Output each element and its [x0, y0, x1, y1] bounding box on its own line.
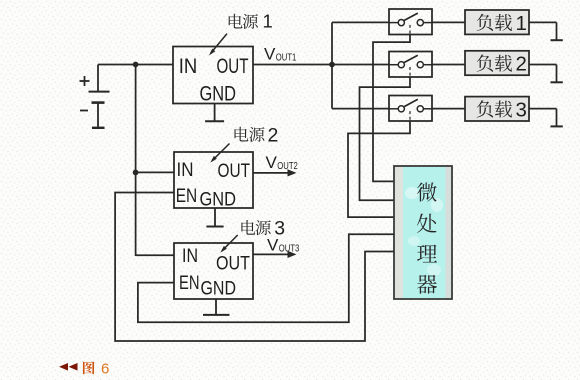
wire IN bus vertical [135, 65, 137, 257]
regulator U2 power-supply 2 box [174, 152, 253, 211]
wire supply2 VOUT2 output arrow [253, 169, 297, 176]
load box 负载1 [465, 10, 529, 35]
switch S3 [389, 96, 432, 122]
svg-text:2: 2 [516, 53, 527, 76]
switch S1 [389, 9, 432, 35]
leader line to supply2 [210, 144, 229, 163]
ground of supply2 [206, 208, 223, 227]
ground of load 1 [551, 39, 563, 41]
wire switch S2 control to microprocessor [360, 77, 411, 200]
label 电源1 [229, 11, 273, 32]
microprocessor U4 box [394, 166, 452, 299]
wire switch S1 to load 1 [432, 21, 465, 23]
label 电源2 [234, 124, 278, 146]
label VOUT2 [266, 153, 298, 172]
svg-text:GND: GND [200, 83, 237, 106]
wire supply3 VOUT3 output arrow [253, 251, 297, 258]
svg-text:GND: GND [200, 189, 237, 211]
label VOUT3 [267, 236, 299, 255]
wire VOUT1 to switch S2 [332, 64, 389, 66]
svg-text:3: 3 [516, 98, 527, 121]
svg-text:IN: IN [179, 54, 198, 78]
wire load 3 to ground [529, 109, 557, 126]
svg-text:EN: EN [176, 185, 198, 207]
svg-text:V: V [267, 236, 279, 255]
label VOUT1 [264, 45, 296, 64]
wire IN bus to supply3 IN [136, 254, 174, 256]
wire IN bus to supply2 IN [136, 171, 174, 173]
wire VOUT1 to switch S1 [332, 21, 389, 23]
leader line to supply3 [220, 235, 237, 253]
switch S2 [389, 52, 432, 78]
battery B1 [89, 92, 110, 128]
wire switch S3 to load 3 [432, 108, 465, 110]
svg-text:OUT: OUT [216, 253, 250, 275]
svg-text:IN: IN [182, 245, 198, 267]
svg-text:IN: IN [177, 159, 194, 181]
junction node VOUT1 [329, 62, 335, 68]
caption double left arrows [59, 363, 78, 371]
ground of load 3 [551, 125, 563, 127]
wire VOUT1 to switch S3 [332, 108, 389, 110]
ground of supply1 [205, 104, 224, 122]
wire battery+ to top rail [98, 65, 173, 92]
ground of load 2 [551, 81, 563, 83]
wire switch S2 to load 2 [432, 64, 465, 66]
svg-text:EN: EN [179, 272, 200, 294]
regulator U1 power-supply 1 box [173, 47, 253, 106]
wire supply2 EN to microprocessor [115, 193, 394, 342]
ground of supply3 [203, 299, 230, 315]
svg-text:1: 1 [263, 11, 273, 32]
svg-text:GND: GND [201, 278, 237, 300]
svg-text:OUT: OUT [218, 160, 251, 182]
load box 负载2 [465, 51, 529, 76]
svg-text:V: V [266, 153, 278, 172]
wire switch S3 control to microprocessor [348, 121, 410, 217]
wire switch S1 control to microprocessor [373, 35, 410, 182]
junction node top rail / IN bus [133, 62, 139, 68]
battery B1 plus sign [80, 76, 90, 86]
regulator U3 power-supply 3 box [174, 243, 253, 300]
svg-text:2: 2 [268, 124, 279, 146]
leader line to supply1 [209, 34, 227, 56]
wire load 2 to ground [529, 65, 557, 82]
junction node IN bus / supply2 IN [133, 170, 139, 176]
svg-text:1: 1 [516, 12, 527, 35]
load box 负载3 [465, 97, 529, 122]
svg-text:OUT: OUT [217, 55, 249, 78]
wire VOUT1 bus vertical [331, 22, 333, 108]
battery minus sign [80, 110, 88, 112]
svg-text:6: 6 [101, 361, 109, 378]
svg-text:V: V [264, 45, 276, 64]
wire supply3 EN to microprocessor [138, 234, 394, 322]
svg-text:OUT1: OUT1 [276, 52, 297, 64]
wire load 1 to ground [529, 22, 557, 39]
caption 图6 [83, 361, 109, 378]
label 电源3 [241, 217, 285, 239]
wire supply1 OUT to node VOUT1 [253, 64, 332, 66]
